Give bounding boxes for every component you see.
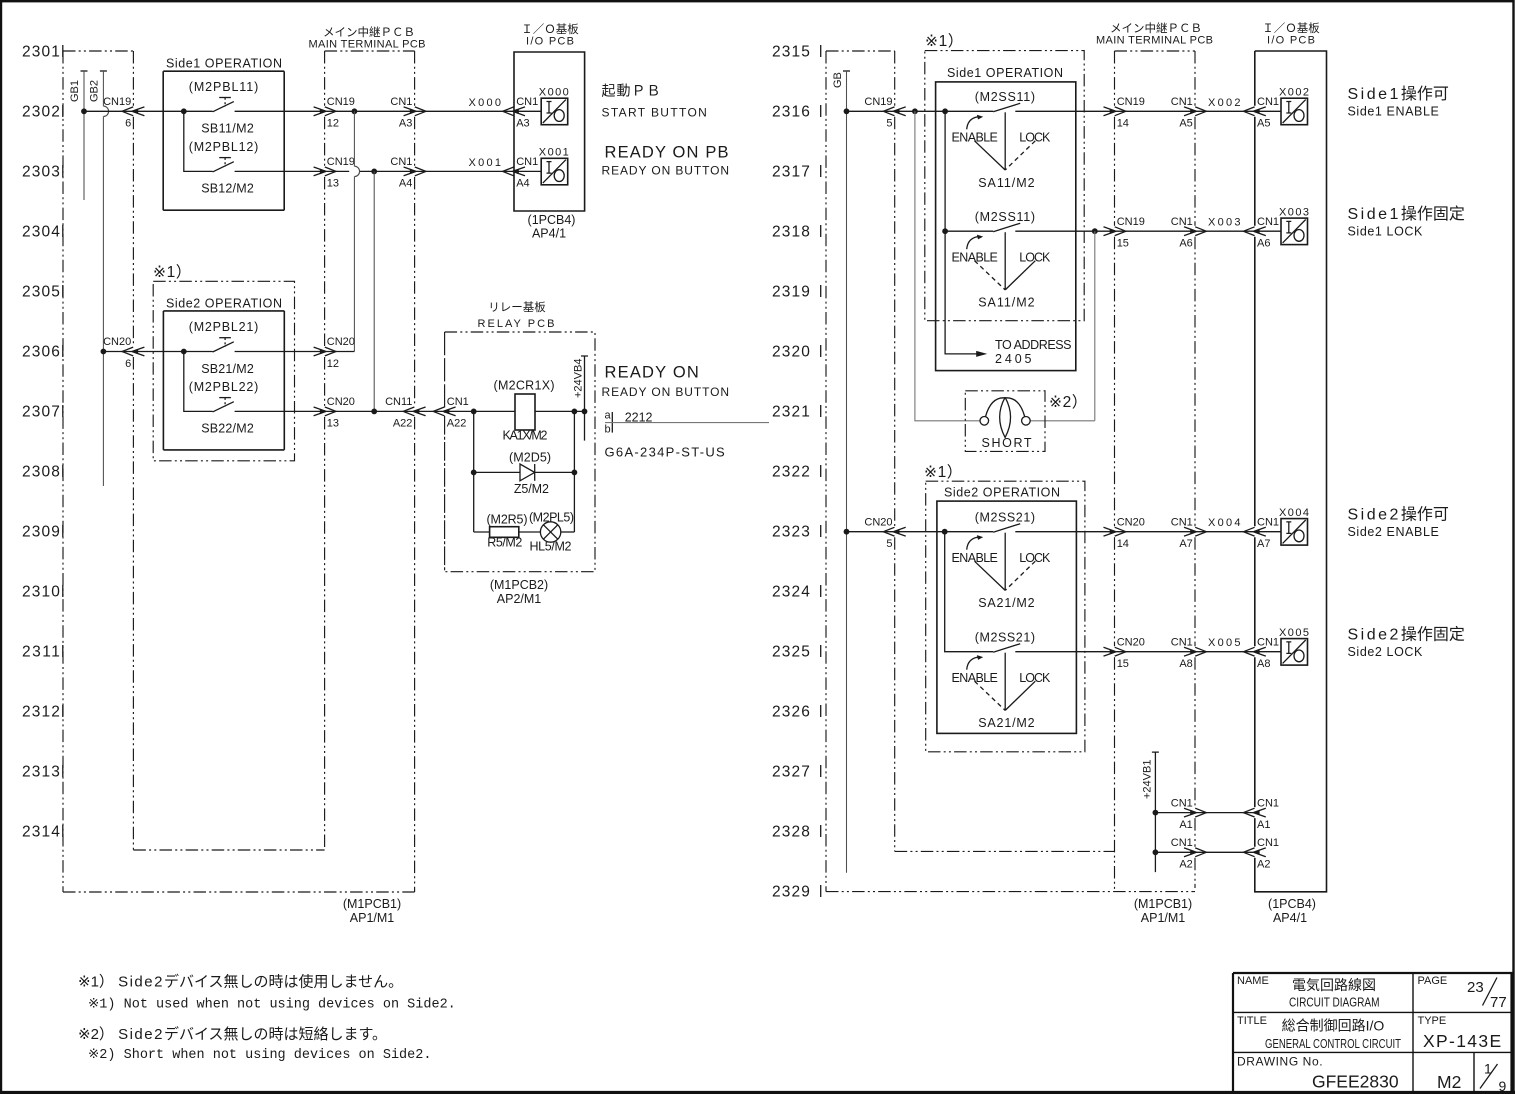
svg-text:A5: A5 (1257, 118, 1270, 130)
svg-text:起動ＰＢ: 起動ＰＢ (602, 83, 662, 99)
svg-text:(M2D5): (M2D5) (509, 450, 551, 464)
svg-text:XP-143E: XP-143E (1423, 1031, 1503, 1051)
svg-text:LOCK: LOCK (1019, 671, 1051, 685)
svg-text:Side1 OPERATION: Side1 OPERATION (947, 66, 1063, 80)
svg-text:AP1/M1: AP1/M1 (350, 911, 395, 925)
wire row 2303 (ready-on chain) (235, 170, 542, 172)
svg-text:電気回路線図: 電気回路線図 (1292, 977, 1376, 993)
svg-text:2318: 2318 (772, 224, 811, 241)
svg-text:12: 12 (327, 118, 339, 130)
wire branch 2302-2303 (184, 111, 213, 171)
svg-text:(1PCB4): (1PCB4) (528, 213, 576, 227)
svg-text:LOCK: LOCK (1019, 551, 1051, 565)
svg-text:SA11/M2: SA11/M2 (978, 296, 1034, 310)
svg-text:Side1 LOCK: Side1 LOCK (1348, 225, 1424, 239)
svg-text:LOCK: LOCK (1019, 131, 1051, 145)
svg-text:A6: A6 (1257, 238, 1270, 250)
svg-text:2323: 2323 (772, 524, 811, 541)
svg-text:+24VB4: +24VB4 (573, 359, 585, 398)
pushbutton SB12/M2 (M2PBL12) (213, 162, 234, 172)
relay PCB dash-dot box (445, 332, 595, 572)
svg-text:5: 5 (886, 118, 892, 130)
wire row 2323 (side2 enable) (847, 531, 1282, 533)
svg-text:(M2PL5): (M2PL5) (529, 511, 574, 525)
node GB junction 2316 (844, 108, 850, 114)
svg-text:A3: A3 (399, 118, 412, 130)
node 2302/branch to 2306 (352, 108, 358, 114)
connector CN20 pin5 (893, 527, 906, 536)
svg-text:(M2SS21): (M2SS21) (975, 630, 1035, 644)
svg-text:2322: 2322 (772, 464, 811, 481)
svg-text:13: 13 (327, 418, 339, 430)
svg-text:PAGE: PAGE (1418, 975, 1448, 987)
connector CN20 pin14 (1104, 527, 1117, 536)
wire hop: GB2 over row 2302 (103, 106, 108, 116)
vertical link 2302 to 2306 (353, 111, 355, 351)
svg-text:2329: 2329 (772, 884, 811, 901)
wire row 2302 (start button chain) (84, 110, 541, 112)
svg-text:ENABLE: ENABLE (952, 671, 998, 685)
Side2 optional dash-dot box (right) (926, 481, 1085, 752)
wire row 2306 (103, 351, 354, 353)
selector switch SA21/M2 deck1 (M2SS21) (993, 524, 1020, 533)
svg-text:2324: 2324 (772, 584, 811, 601)
svg-text:2317: 2317 (772, 164, 811, 181)
svg-text:AP1/M1: AP1/M1 (1141, 911, 1186, 925)
main terminal right boundary (right half) (1194, 51, 1196, 888)
svg-text:※2） Side2デバイス無しの時は短絡します。: ※2） Side2デバイス無しの時は短絡します。 (78, 1025, 387, 1043)
connector CN1 pinA4 (404, 167, 417, 176)
svg-text:Side2操作固定: Side2操作固定 (1348, 626, 1465, 644)
svg-text:23: 23 (1467, 979, 1484, 996)
node GB1 junction 2302 (81, 108, 87, 114)
svg-text:2302: 2302 (22, 104, 61, 121)
bus GB1 (81, 70, 88, 72)
svg-text:2307: 2307 (22, 404, 61, 421)
selector switch SA11/M2 deck2 (M2SS11) (993, 223, 1020, 232)
connector CN20 pin12 (314, 347, 327, 356)
svg-text:CN19: CN19 (103, 96, 131, 108)
connector CN1 pinA5 (I/O side) (1253, 107, 1266, 116)
svg-text:※2）: ※2） (1049, 394, 1088, 411)
panel enclosure boundary top (63, 50, 133, 52)
svg-text:CN1: CN1 (1171, 216, 1193, 228)
connector CN1 pinA2 (I/O side) (1253, 848, 1266, 857)
connector CN1 pinA7 (I/O side) (1253, 527, 1266, 536)
I/O PCB box (1PCB4) (514, 52, 585, 211)
svg-text:2303: 2303 (22, 164, 61, 181)
svg-text:(M2R5): (M2R5) (487, 513, 528, 527)
node relay right branch (572, 409, 578, 415)
svg-text:77: 77 (1490, 994, 1507, 1011)
svg-text:R5/M2: R5/M2 (487, 535, 522, 549)
svg-text:2310: 2310 (22, 584, 61, 601)
short plug box (965, 391, 1045, 452)
connector CN19 pin14 (1104, 107, 1117, 116)
vertical link 2303 to 2307 (373, 171, 375, 411)
cable/main-terminal-PCB boundary (CN19/CN20 PCB side) (324, 51, 326, 850)
svg-text:13: 13 (327, 178, 339, 190)
svg-text:A6: A6 (1179, 238, 1192, 250)
svg-text:(M2PBL11): (M2PBL11) (189, 80, 259, 94)
pushbutton SB11/M2 (M2PBL11) (213, 102, 234, 112)
svg-text:RELAY PCB: RELAY PCB (478, 318, 555, 330)
svg-text:※1) Not used when not using de: ※1) Not used when not using devices on S… (88, 998, 456, 1013)
svg-text:2312: 2312 (22, 704, 61, 721)
connector CN1 pinA4 (I/O PCB side) (513, 167, 526, 176)
svg-text:メイン中継ＰＣＢ: メイン中継ＰＣＢ (323, 25, 415, 39)
svg-text:NAME: NAME (1237, 975, 1269, 987)
connector CN1 pinA22 (relay pcb) (443, 407, 456, 416)
svg-text:メイン中継ＰＣＢ: メイン中継ＰＣＢ (1110, 21, 1202, 35)
svg-text:I/O PCB: I/O PCB (526, 36, 574, 48)
wire CN1 A1 (1155, 812, 1254, 814)
panel enclosure bottom edge (63, 891, 415, 893)
panel enclosure boundary left (62, 51, 64, 892)
svg-text:READY ON: READY ON (605, 364, 700, 382)
svg-text:SB11/M2: SB11/M2 (201, 122, 254, 136)
svg-text:CN1: CN1 (1257, 96, 1279, 108)
svg-text:CN20: CN20 (103, 336, 131, 348)
connector CN1 pinA8 (I/O side) (1253, 647, 1266, 656)
svg-text:(M2SS11): (M2SS11) (975, 90, 1035, 104)
svg-text:CN1: CN1 (1171, 516, 1193, 528)
svg-text:MAIN TERMINAL PCB: MAIN TERMINAL PCB (1096, 35, 1213, 47)
svg-text:CN1: CN1 (1171, 96, 1193, 108)
svg-text:2325: 2325 (772, 644, 811, 661)
svg-text:2328: 2328 (772, 824, 811, 841)
svg-text:2315: 2315 (772, 44, 811, 61)
svg-text:READY ON BUTTON: READY ON BUTTON (602, 164, 730, 178)
selector switch SA11/M2 deck1 (M2SS11) (993, 103, 1020, 112)
svg-text:リレー基板: リレー基板 (488, 300, 546, 314)
svg-text:CN20: CN20 (327, 336, 355, 348)
connector CN20 pin6 (panel side) (132, 347, 145, 356)
power +24VB4 (582, 409, 588, 415)
svg-text:TO ADDRESS: TO ADDRESS (995, 338, 1072, 352)
svg-text:A5: A5 (1179, 118, 1192, 130)
node 2318 feed (942, 228, 948, 234)
bus GB (right half) (843, 70, 850, 72)
svg-text:KA1X/M2: KA1X/M2 (503, 428, 548, 442)
svg-text:A4: A4 (399, 178, 412, 190)
power +24VB1 (1152, 752, 1159, 872)
panel/cable boundary CN19-CN20 (right half) (894, 51, 896, 851)
connector CN19 pin5 (893, 107, 906, 116)
cable/main-terminal boundary (right half) (1114, 51, 1116, 891)
svg-text:Side2 ENABLE: Side2 ENABLE (1348, 525, 1440, 539)
svg-text:2321: 2321 (772, 404, 811, 421)
svg-text:CN19: CN19 (864, 96, 892, 108)
svg-text:(M2SS21): (M2SS21) (975, 510, 1035, 524)
svg-text:I/O PCB: I/O PCB (1267, 35, 1315, 47)
svg-text:CN19: CN19 (1117, 216, 1145, 228)
svg-text:6: 6 (125, 358, 131, 370)
svg-text:2326: 2326 (772, 704, 811, 721)
svg-text:AP4/1: AP4/1 (1273, 911, 1307, 925)
svg-text:SB21/M2: SB21/M2 (201, 362, 254, 376)
Side2 optional dash-dot box (153, 281, 294, 461)
svg-text:Z5/M2: Z5/M2 (514, 482, 549, 496)
svg-text:2319: 2319 (772, 284, 811, 301)
node 2303/branch to 2307 (371, 169, 377, 175)
svg-text:2311: 2311 (22, 644, 61, 661)
svg-text:A1: A1 (1179, 819, 1192, 831)
svg-text:総合制御回路I/O: 総合制御回路I/O (1282, 1018, 1385, 1034)
svg-text:CN11: CN11 (385, 396, 412, 408)
svg-text:2313: 2313 (22, 764, 61, 781)
svg-text:TITLE: TITLE (1237, 1015, 1267, 1027)
vertical feed 2323-2325 (945, 532, 994, 652)
svg-text:CN19: CN19 (327, 156, 355, 168)
svg-text:SB12/M2: SB12/M2 (201, 182, 254, 196)
svg-text:A22: A22 (393, 418, 413, 430)
svg-text:Ｉ／Ｏ基板: Ｉ／Ｏ基板 (1262, 21, 1320, 35)
connector CN1 pinA6 (1184, 227, 1197, 236)
svg-text:AP4/1: AP4/1 (532, 227, 566, 241)
svg-text:SA11/M2: SA11/M2 (978, 176, 1034, 190)
node relay left branch (471, 409, 477, 415)
svg-text:A7: A7 (1257, 538, 1270, 550)
svg-text:GB1: GB1 (69, 80, 81, 102)
svg-text:CN1: CN1 (1257, 516, 1279, 528)
svg-text:※2) Short when not using devic: ※2) Short when not using devices on Side… (88, 1048, 431, 1063)
svg-text:A1: A1 (1257, 819, 1270, 831)
svg-text:Side2操作可: Side2操作可 (1348, 506, 1449, 524)
connector CN19 pin6 (panel side) (132, 107, 145, 116)
svg-text:2301: 2301 (22, 44, 61, 61)
svg-text:(M2PBL12): (M2PBL12) (189, 140, 259, 154)
cable area bottom edge (133, 849, 324, 851)
wire to address 2212 (optional link) (605, 422, 769, 424)
wire relay right (535, 410, 585, 412)
svg-text:(M2CR1X): (M2CR1X) (494, 379, 555, 393)
svg-text:CN20: CN20 (864, 516, 892, 528)
node branch to SA11 second deck (942, 108, 948, 114)
svg-text:CN19: CN19 (327, 96, 355, 108)
svg-text:CN1: CN1 (1257, 216, 1279, 228)
node GB2 junction 2306 (101, 349, 107, 355)
svg-text:(M1PCB2): (M1PCB2) (490, 578, 548, 592)
svg-text:MAIN TERMINAL PCB: MAIN TERMINAL PCB (309, 39, 426, 51)
svg-text:A22: A22 (447, 418, 467, 430)
svg-text:A4: A4 (516, 178, 529, 190)
wire branch 2306-2307 (184, 352, 213, 412)
svg-text:CN1: CN1 (1171, 797, 1193, 809)
node 2318 to short plug (1092, 228, 1098, 234)
svg-text:CN20: CN20 (1117, 516, 1145, 528)
svg-text:Ｉ／Ｏ基板: Ｉ／Ｏ基板 (521, 22, 579, 36)
svg-text:2309: 2309 (22, 524, 61, 541)
svg-text:6: 6 (125, 118, 131, 130)
wire hop: link over row 2303 (354, 166, 359, 176)
svg-text:CN1: CN1 (390, 96, 412, 108)
connector CN11 pinA22 (413, 407, 426, 416)
svg-text:※1）: ※1） (153, 264, 192, 281)
svg-text:※1） Side2デバイス無しの時は使用しません。: ※1） Side2デバイス無しの時は使用しません。 (78, 973, 403, 991)
svg-text:SA21/M2: SA21/M2 (978, 716, 1034, 730)
svg-text:CN1: CN1 (1257, 837, 1279, 849)
pushbutton SB22/M2 (M2PBL22) (213, 402, 234, 412)
svg-text:2316: 2316 (772, 104, 811, 121)
svg-text:DRAWING No.: DRAWING No. (1237, 1055, 1323, 1069)
svg-text:2320: 2320 (772, 344, 811, 361)
diode M2D5 Z5/M2 (474, 471, 575, 473)
svg-text:CN20: CN20 (1117, 636, 1145, 648)
svg-text:(M1PCB1): (M1PCB1) (1134, 897, 1192, 911)
svg-text:2327: 2327 (772, 764, 811, 781)
svg-text:A7: A7 (1179, 538, 1192, 550)
svg-text:14: 14 (1117, 118, 1129, 130)
wire row 2316 (side1 enable) (847, 110, 1282, 112)
svg-text:G6A-234P-ST-US: G6A-234P-ST-US (605, 445, 727, 460)
node branch SB11/SB12 (181, 108, 187, 114)
svg-text:15: 15 (1117, 238, 1129, 250)
connector CN19 pin13 (314, 167, 327, 176)
svg-text:M2: M2 (1437, 1072, 1461, 1092)
svg-text:(M2PBL22): (M2PBL22) (189, 380, 259, 394)
connector CN1 pinA7 (1184, 527, 1197, 536)
svg-text:+24VB1: +24VB1 (1142, 760, 1154, 799)
svg-text:CN1: CN1 (447, 396, 469, 408)
wire CN1 A2 (1155, 851, 1254, 853)
svg-text:A8: A8 (1257, 658, 1270, 670)
svg-text:CN1: CN1 (1171, 837, 1193, 849)
svg-text:GB: GB (832, 72, 844, 88)
svg-text:ENABLE: ENABLE (952, 551, 998, 565)
I/O PCB box right (1PCB4) (1255, 51, 1327, 892)
svg-text:a: a (605, 410, 612, 422)
svg-text:A2: A2 (1257, 859, 1270, 871)
wire row 2307 (235, 410, 515, 412)
svg-text:LOCK: LOCK (1019, 250, 1051, 264)
panel enclosure boundary left (right half) (825, 51, 827, 892)
cable area bottom (right half) (895, 850, 1115, 852)
svg-text:READY ON PB: READY ON PB (605, 144, 730, 162)
svg-text:HL5/M2: HL5/M2 (530, 539, 572, 553)
svg-text:START BUTTON: START BUTTON (602, 106, 709, 120)
svg-text:Side1 OPERATION: Side1 OPERATION (166, 57, 282, 71)
node branch SB21/SB22 (181, 349, 187, 355)
svg-text:5: 5 (886, 538, 892, 550)
svg-text:CIRCUIT DIAGRAM: CIRCUIT DIAGRAM (1289, 995, 1380, 1009)
svg-text:Side1 ENABLE: Side1 ENABLE (1348, 105, 1440, 119)
selector switch SA21/M2 deck2 (M2SS21) (993, 644, 1020, 653)
svg-text:※1）: ※1） (925, 33, 964, 50)
svg-text:12: 12 (327, 358, 339, 370)
connector CN1 pinA8 (1184, 647, 1197, 656)
svg-text:SA21/M2: SA21/M2 (978, 596, 1034, 610)
svg-text:SB22/M2: SB22/M2 (201, 422, 254, 436)
svg-text:ENABLE: ENABLE (952, 250, 998, 264)
wire to address 2405 (945, 231, 984, 354)
svg-text:2304: 2304 (22, 224, 61, 241)
short plug symbol (980, 417, 989, 426)
svg-text:A3: A3 (516, 118, 529, 130)
optional short plug branch left (915, 111, 980, 421)
connector CN19 pin15 (1104, 227, 1117, 236)
svg-text:CN1: CN1 (516, 96, 538, 108)
connector CN20 pin13 (314, 407, 327, 416)
svg-text:(1PCB4): (1PCB4) (1268, 897, 1316, 911)
svg-text:9: 9 (1499, 1078, 1507, 1094)
svg-text:14: 14 (1117, 538, 1129, 550)
svg-text:Side2 LOCK: Side2 LOCK (1348, 645, 1424, 659)
bus GB2 (100, 70, 107, 72)
svg-text:CN1: CN1 (1171, 636, 1193, 648)
lamp M2PL5 HL5/M2 (540, 522, 560, 542)
wire row 2318 (side1 lock) (945, 230, 1281, 232)
svg-text:15: 15 (1117, 658, 1129, 670)
node branch to short plug (912, 108, 918, 114)
svg-text:(M1PCB1): (M1PCB1) (343, 897, 401, 911)
svg-text:CN1: CN1 (390, 156, 412, 168)
connector CN1 pinA5 (1184, 107, 1197, 116)
connector CN1 pinA3 (I/O PCB side) (513, 107, 526, 116)
svg-text:※1）: ※1） (924, 464, 963, 481)
Side1 optional dash-dot box (925, 51, 1084, 321)
svg-text:AP2/M1: AP2/M1 (497, 592, 542, 606)
svg-text:CN20: CN20 (327, 396, 355, 408)
svg-text:2305: 2305 (22, 284, 61, 301)
relay branch verticals (474, 411, 575, 532)
connector CN19 pin12 (314, 107, 327, 116)
svg-text:SHORT: SHORT (982, 436, 1032, 450)
main terminal PCB right boundary CN1/CN11 (414, 51, 416, 892)
svg-text:GENERAL CONTROL CIRCUIT: GENERAL CONTROL CIRCUIT (1265, 1037, 1401, 1051)
svg-text:GFEE2830: GFEE2830 (1312, 1072, 1399, 1092)
svg-text:2306: 2306 (22, 344, 61, 361)
svg-text:(M2PBL21): (M2PBL21) (189, 320, 259, 334)
svg-text:CN1: CN1 (1257, 797, 1279, 809)
svg-text:A2: A2 (1179, 859, 1192, 871)
resistor M2R5 R5/M2 (474, 531, 541, 533)
connector CN20 pin15 (1104, 647, 1117, 656)
svg-text:GB2: GB2 (89, 80, 101, 102)
connector CN1 pinA3 (main terminal out) (404, 107, 417, 116)
svg-text:Side2 OPERATION: Side2 OPERATION (166, 297, 282, 311)
svg-text:CN1: CN1 (1257, 636, 1279, 648)
node GB junction 2323 (844, 529, 850, 535)
optional short plug branch right (1030, 231, 1095, 421)
svg-text:2314: 2314 (22, 824, 61, 841)
vertical feed 2316-2318 (944, 111, 946, 231)
svg-text:Side2 OPERATION: Side2 OPERATION (944, 486, 1060, 500)
panel/cable boundary CN19-CN20 (connector line) (132, 51, 134, 850)
pushbutton SB21/M2 (M2PBL21) (213, 342, 234, 352)
svg-text:Side1操作可: Side1操作可 (1348, 85, 1449, 103)
wire row 2325 (side2 lock) (1015, 651, 1281, 653)
node branch to SA21 second deck (942, 529, 948, 535)
svg-text:2308: 2308 (22, 464, 61, 481)
svg-text:Side1操作固定: Side1操作固定 (1348, 205, 1465, 223)
svg-text:b: b (605, 424, 611, 436)
panel enclosure bottom (right half) (826, 891, 1195, 893)
node 2307 link junction (371, 409, 377, 415)
svg-text:ENABLE: ENABLE (952, 131, 998, 145)
svg-text:(M2SS11): (M2SS11) (975, 210, 1035, 224)
connector CN1 pinA6 (I/O side) (1253, 227, 1266, 236)
svg-text:READY ON BUTTON: READY ON BUTTON (602, 385, 730, 399)
svg-text:TYPE: TYPE (1418, 1015, 1447, 1027)
connector CN1 pinA1 (I/O side) (1253, 808, 1266, 817)
main terminal PCB top edge (325, 50, 415, 52)
svg-text:CN19: CN19 (1117, 96, 1145, 108)
svg-text:A8: A8 (1179, 658, 1192, 670)
svg-text:CN1: CN1 (516, 156, 538, 168)
title block frame (1233, 973, 1512, 1091)
